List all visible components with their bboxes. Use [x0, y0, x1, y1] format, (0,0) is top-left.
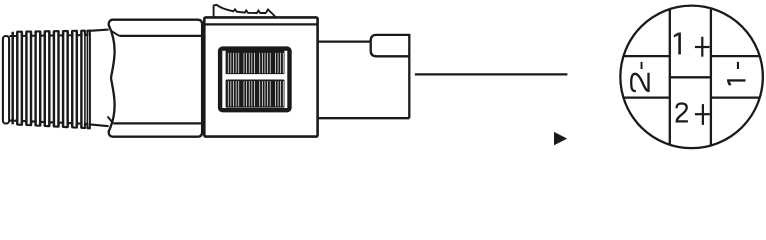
front barrel top line	[318, 40, 371, 42]
right upper chord	[711, 55, 760, 57]
right lower chord	[711, 96, 760, 98]
channel right line	[710, 8, 712, 145]
label 2- rotated digit 2	[631, 73, 648, 91]
chuck nut top chamfer diagonal	[111, 31, 120, 36]
label 2+ digit 2	[677, 104, 688, 122]
chuck nut outline	[109, 20, 202, 137]
left upper chord	[623, 55, 669, 57]
chuck nut bottom chamfer diagonal	[108, 117, 114, 124]
cone transition top edge	[90, 30, 109, 31]
label 1+ plus sign	[695, 37, 710, 57]
grip insert frame	[220, 49, 289, 111]
grip insert upper band	[226, 50, 285, 74]
channel left line	[669, 9, 671, 145]
label 2+ plus sign	[695, 104, 710, 125]
chuck nut inner top line	[119, 35, 203, 37]
housing inner top line	[204, 23, 317, 25]
chuck nut inner bottom line	[113, 122, 203, 124]
label 1- rotated minus	[737, 62, 739, 69]
housing	[204, 17, 317, 136]
cable end cap	[3, 36, 9, 124]
wire	[415, 73, 568, 75]
left lower chord	[623, 96, 669, 98]
grip insert lower band	[226, 80, 285, 108]
latch	[214, 5, 276, 17]
locking tab and right edge	[371, 35, 410, 118]
strain relief ribs	[13, 31, 90, 129]
label 1- rotated digit 1	[727, 79, 745, 85]
label 1+ digit 1	[674, 33, 681, 55]
ribs top outline	[10, 31, 90, 36]
label 2- rotated minus	[641, 62, 643, 69]
cone transition bottom edge	[90, 124, 109, 126]
front barrel bottom line	[318, 117, 410, 119]
channel center line	[670, 76, 711, 78]
pinout circle	[620, 6, 763, 149]
arrow marker	[554, 132, 567, 145]
ribs bottom outline	[10, 121, 90, 129]
